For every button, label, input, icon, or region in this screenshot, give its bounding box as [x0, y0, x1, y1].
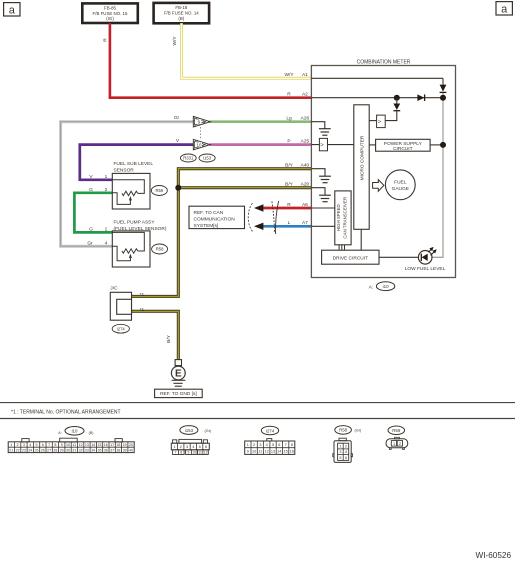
svg-text:6: 6 [205, 445, 207, 449]
svg-text:B/Y: B/Y [166, 334, 172, 343]
wire W/Y (fuse FB-18 to A1) [172, 23, 311, 78]
svg-text:R331: R331 [183, 156, 194, 161]
twisted pair marker [272, 201, 279, 234]
connector R58 (at pump assy) [152, 244, 168, 254]
svg-text:Lg: Lg [286, 116, 292, 122]
svg-text:Gr: Gr [87, 241, 93, 247]
svg-text:COMBINATION METER: COMBINATION METER [357, 59, 411, 65]
svg-text:CIRCUIT: CIRCUIT [393, 146, 413, 152]
connector R331 [180, 154, 196, 162]
fuse FB-85 F/B FUSE NO.15 (IG) [82, 3, 138, 23]
wire A2 internal [311, 97, 443, 99]
micro to drive circuit stub [360, 229, 362, 250]
joint connector triangle 9 [193, 116, 210, 127]
regulator U2 (V) [369, 115, 385, 128]
diode D2 (on A2 line) [417, 94, 424, 101]
svg-text:i153: i153 [185, 428, 194, 433]
svg-text:32: 32 [79, 449, 83, 453]
wire B/Y (A40 down to J/C pin) [132, 169, 312, 297]
svg-text:A6: A6 [302, 202, 308, 208]
wire A7 internal [311, 225, 334, 227]
wire A40 internal to ground [311, 169, 325, 177]
svg-text:F/B FUSE NO. 15: F/B FUSE NO. 15 [93, 11, 128, 16]
svg-text:i274: i274 [117, 326, 126, 331]
svg-text:6: 6 [278, 443, 280, 447]
ref to CAN box [189, 206, 245, 229]
fuse FB-18 F/B FUSE NO.14 (B) [154, 3, 210, 23]
svg-text:8: 8 [180, 451, 182, 455]
connector pinout i274 16-pin [245, 439, 295, 455]
svg-text:a: a [501, 4, 508, 16]
svg-text:R58: R58 [339, 428, 348, 433]
wire A6 internal [311, 207, 334, 209]
svg-text:11: 11 [198, 451, 202, 455]
fuel pump assy (fuel level sensor) [87, 220, 167, 268]
svg-text:5: 5 [36, 443, 38, 447]
svg-text:1: 1 [339, 445, 341, 449]
svg-text:20: 20 [129, 443, 133, 447]
ground (A40) [319, 176, 331, 183]
svg-text:9: 9 [247, 449, 249, 453]
wire A20 internal to ground [311, 188, 325, 196]
svg-text:*1: *1 [140, 307, 145, 313]
svg-text:FUEL SUB LEVEL: FUEL SUB LEVEL [114, 161, 154, 167]
svg-text:9: 9 [187, 451, 189, 455]
svg-text:5: 5 [199, 445, 201, 449]
joint connector triangle 10 [193, 139, 210, 150]
high speed CAN transceiver U4 [335, 191, 351, 245]
svg-text:i274: i274 [266, 428, 275, 433]
svg-text:14: 14 [277, 449, 281, 453]
svg-text:DRIVE CIRCUIT: DRIVE CIRCUIT [333, 255, 369, 261]
svg-text:15: 15 [283, 449, 287, 453]
regulator U3 (V) on A25 [319, 138, 327, 150]
footnote rules [0, 402, 515, 404]
gauge drive arrow [373, 180, 384, 192]
svg-text:3: 3 [23, 443, 25, 447]
svg-text:B/Y: B/Y [285, 182, 294, 188]
svg-text:W/Y: W/Y [172, 36, 178, 46]
connector i10 (meter) [369, 282, 395, 291]
ground (A26) [319, 129, 331, 136]
svg-text:F/B FUSE NO. 14: F/B FUSE NO. 14 [164, 11, 199, 16]
svg-text:R58: R58 [156, 247, 164, 252]
svg-text:A:: A: [58, 431, 61, 435]
sender resistor (variable) [112, 232, 144, 251]
ground (A20) [319, 195, 331, 202]
svg-text:10: 10 [197, 142, 202, 147]
connector pinout i153 (Gr) 12-pin [171, 439, 209, 454]
diode D1 (bus, from A1) [440, 85, 447, 93]
svg-text:4: 4 [192, 445, 194, 449]
svg-text:4: 4 [105, 241, 108, 247]
svg-text:7: 7 [285, 443, 287, 447]
svg-text:25: 25 [35, 449, 39, 453]
wire P (joint connector to A25) [210, 143, 312, 146]
svg-text:18: 18 [116, 443, 120, 447]
svg-text:A20: A20 [301, 182, 310, 188]
svg-text:1: 1 [105, 174, 108, 180]
svg-text:R59: R59 [155, 188, 163, 193]
joint connector link (dashed) [200, 127, 202, 139]
svg-text:A2: A2 [302, 92, 308, 98]
view label a (top-left) [4, 3, 20, 17]
svg-text:(Gr): (Gr) [205, 429, 212, 433]
svg-text:FUEL: FUEL [394, 180, 407, 186]
wire R CAN-H (A6) [254, 204, 311, 211]
view label a (top-right) [496, 2, 512, 16]
svg-text:MICRO COMPUTER: MICRO COMPUTER [359, 135, 365, 180]
wire Gr (pump sender pin4 loop to joint connector) [61, 115, 194, 246]
wire V (joint connector to sub sensor pin1) [80, 138, 194, 180]
sender resistor (variable) [112, 180, 144, 194]
svg-text:REF. TO CAN: REF. TO CAN [194, 210, 224, 216]
svg-text:FB-85: FB-85 [104, 5, 117, 10]
svg-text:POWER SUPPLY: POWER SUPPLY [384, 141, 423, 147]
svg-text:COMMUNICATION: COMMUNICATION [194, 217, 236, 223]
wire B/Y (J/C to ground E) [132, 311, 179, 359]
svg-text:B/Y: B/Y [285, 163, 294, 169]
svg-text:35: 35 [98, 449, 102, 453]
wire A26 internal to ground [311, 122, 324, 129]
svg-text:14: 14 [91, 443, 95, 447]
svg-text:37: 37 [110, 449, 114, 453]
svg-text:W/Y: W/Y [284, 72, 294, 78]
svg-text:G: G [89, 187, 93, 193]
svg-text:R: R [102, 38, 108, 42]
svg-text:17: 17 [110, 443, 114, 447]
svg-text:FUEL PUMP ASSY: FUEL PUMP ASSY [114, 220, 156, 226]
wire A25 internal [311, 144, 353, 146]
svg-text:R: R [287, 92, 291, 98]
svg-text:Gr: Gr [174, 115, 180, 121]
svg-text:SENSOR: SENSOR [114, 167, 135, 173]
wire A1 internal [311, 77, 443, 79]
svg-text:A40: A40 [301, 163, 310, 169]
connector pinout R59 2-pin [386, 437, 408, 449]
transceiver to drive circuit stubs [339, 245, 344, 250]
svg-text:16: 16 [104, 443, 108, 447]
junction B/Y [175, 185, 181, 191]
svg-text:12: 12 [79, 443, 83, 447]
svg-text:A25: A25 [301, 139, 310, 145]
connector pinout i10 (A) 40-pin [8, 438, 134, 452]
svg-text:1: 1 [10, 443, 12, 447]
svg-text:8: 8 [54, 443, 56, 447]
svg-text:13: 13 [85, 443, 89, 447]
ground E [171, 360, 185, 387]
svg-text:GAUGE: GAUGE [392, 186, 409, 192]
svg-text:28: 28 [53, 449, 57, 453]
wire Lg (joint connector to A26) [210, 120, 312, 123]
svg-text:i153: i153 [203, 156, 212, 161]
svg-text:24: 24 [28, 449, 32, 453]
svg-text:*1 : TERMINAL No. OPTIONAL AR: *1 : TERMINAL No. OPTIONAL ARRANGEMENT [11, 409, 121, 415]
svg-text:23: 23 [22, 449, 26, 453]
svg-text:38: 38 [116, 449, 120, 453]
svg-text:2: 2 [180, 445, 182, 449]
node A2-bus [440, 95, 446, 101]
svg-text:36: 36 [104, 449, 108, 453]
connector pinout R58 (Gr) 6-pin [333, 438, 353, 462]
svg-text:REF. TO GND [s]: REF. TO GND [s] [160, 391, 197, 397]
svg-text:(IG): (IG) [106, 16, 114, 21]
connector i274 (at J/C) [112, 324, 129, 333]
micro computer U1 [354, 105, 369, 230]
svg-text:A26: A26 [301, 116, 310, 122]
svg-text:1: 1 [105, 227, 108, 233]
wire G (sub sensor pin2 to pump pin1) [74, 193, 112, 233]
svg-text:2: 2 [105, 187, 108, 193]
svg-text:4: 4 [345, 450, 347, 454]
svg-text:9: 9 [61, 443, 63, 447]
power supply circuit [369, 139, 446, 152]
svg-text:P: P [287, 139, 290, 145]
svg-text:12: 12 [265, 449, 269, 453]
svg-text:5: 5 [339, 456, 341, 460]
wire B/Y (A20 branch) [178, 186, 311, 189]
svg-text:2: 2 [253, 443, 255, 447]
svg-text:J/C: J/C [110, 285, 118, 291]
svg-text:11: 11 [258, 449, 262, 453]
svg-text:LOW FUEL LEVEL: LOW FUEL LEVEL [405, 266, 446, 272]
svg-text:E: E [175, 369, 182, 380]
svg-text:2: 2 [345, 445, 347, 449]
svg-text:29: 29 [60, 449, 64, 453]
svg-text:3: 3 [186, 445, 188, 449]
drive circuit [322, 250, 419, 264]
internal supply bus [442, 78, 444, 84]
svg-text:A1: A1 [302, 72, 308, 78]
LED low fuel level [405, 247, 446, 272]
svg-text:40: 40 [129, 449, 133, 453]
svg-text:3: 3 [339, 450, 341, 454]
svg-text:WI-60526: WI-60526 [476, 551, 512, 560]
svg-text:31: 31 [72, 449, 76, 453]
svg-text:(B): (B) [178, 16, 184, 21]
svg-text:8: 8 [291, 443, 293, 447]
connector i153 [199, 154, 215, 162]
wire L CAN-L (A7) [254, 223, 311, 230]
svg-text:19: 19 [123, 443, 127, 447]
CAN bus brace arc [248, 203, 252, 231]
svg-text:6: 6 [345, 456, 347, 460]
svg-text:26: 26 [41, 449, 45, 453]
svg-text:4: 4 [29, 443, 31, 447]
svg-text:R: R [287, 202, 291, 208]
svg-text:1: 1 [173, 445, 175, 449]
svg-text:1: 1 [393, 442, 395, 446]
svg-text:1: 1 [247, 443, 249, 447]
svg-text:CAN TRANSCEIVER: CAN TRANSCEIVER [342, 197, 347, 239]
svg-text:2: 2 [17, 443, 19, 447]
svg-text:(B): (B) [89, 431, 94, 435]
svg-text:27: 27 [47, 449, 51, 453]
svg-text:*1: *1 [140, 292, 145, 298]
svg-text:HIGH SPEED: HIGH SPEED [336, 204, 341, 231]
svg-text:i10: i10 [72, 429, 78, 434]
svg-text:5: 5 [272, 443, 274, 447]
svg-text:3: 3 [259, 443, 261, 447]
svg-text:7: 7 [48, 443, 50, 447]
svg-text:33: 33 [85, 449, 89, 453]
svg-text:10: 10 [66, 443, 70, 447]
connector R59 (at sub sensor) [151, 186, 167, 196]
svg-text:21: 21 [9, 449, 13, 453]
svg-text:(Gr): (Gr) [355, 429, 362, 433]
svg-text:12: 12 [204, 451, 208, 455]
svg-text:G: G [89, 227, 93, 233]
svg-text:34: 34 [91, 449, 95, 453]
fuel gauge M1 [385, 170, 415, 200]
svg-text:4: 4 [266, 443, 268, 447]
diode D3 (A2 branch down) [385, 98, 400, 121]
combination meter box [311, 59, 455, 277]
svg-text:39: 39 [123, 449, 127, 453]
svg-text:R59: R59 [392, 428, 401, 433]
svg-text:30: 30 [66, 449, 70, 453]
fuel sub level sensor [89, 161, 153, 209]
svg-text:10: 10 [192, 451, 196, 455]
svg-text:FB-18: FB-18 [175, 5, 188, 10]
svg-text:16: 16 [290, 449, 294, 453]
ref to gnd box [155, 389, 203, 397]
svg-text:a: a [9, 5, 16, 17]
svg-text:SYSTEM[s]: SYSTEM[s] [194, 223, 219, 229]
svg-text:22: 22 [16, 449, 20, 453]
node A2-branch [394, 95, 400, 101]
svg-text:L: L [288, 220, 291, 226]
svg-text:A7: A7 [302, 220, 308, 226]
wire R (fuse FB-85 to A2) [102, 23, 311, 98]
J/C joint connector [110, 285, 144, 320]
svg-text:A:: A: [369, 284, 374, 290]
svg-text:7: 7 [174, 451, 176, 455]
svg-text:13: 13 [271, 449, 275, 453]
svg-text:15: 15 [98, 443, 102, 447]
svg-text:11: 11 [72, 443, 76, 447]
svg-text:2: 2 [399, 442, 401, 446]
svg-text:6: 6 [42, 443, 44, 447]
svg-text:10: 10 [252, 449, 256, 453]
svg-text:i10: i10 [383, 284, 389, 289]
pin labels [284, 72, 309, 226]
